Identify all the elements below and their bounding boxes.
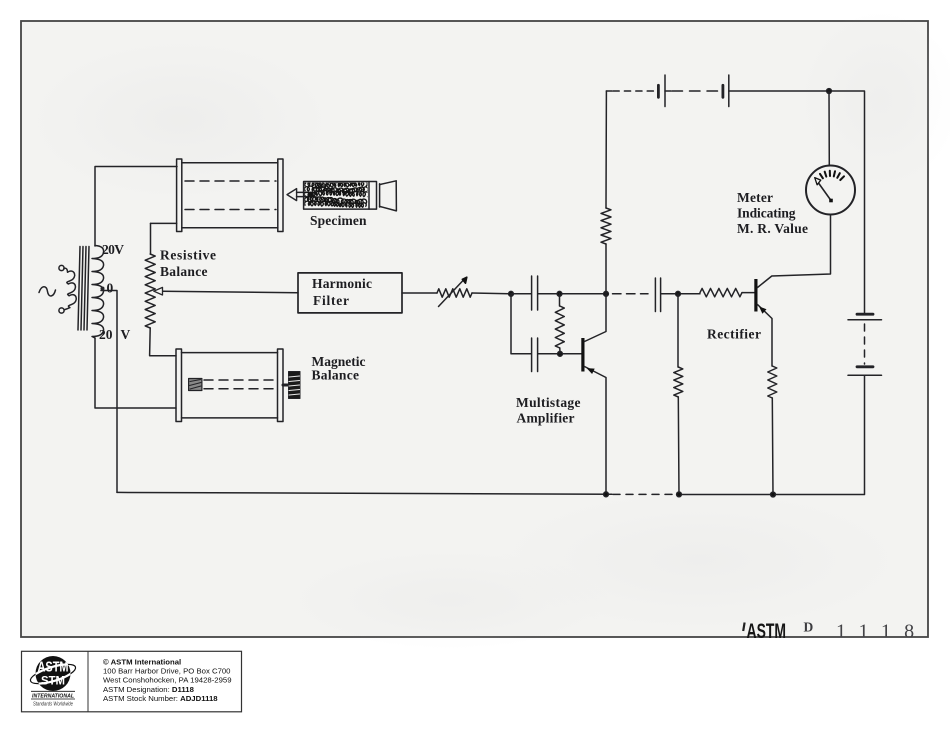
svg-text:Filter: Filter: [313, 293, 349, 308]
svg-text:D: D: [804, 620, 814, 635]
svg-text:Amplifier: Amplifier: [517, 411, 575, 426]
svg-text:© ASTM International: © ASTM International: [103, 657, 181, 666]
svg-text:Multistage: Multistage: [516, 395, 581, 410]
svg-text:Balance: Balance: [160, 264, 208, 279]
svg-text:100 Barr Harbor Drive, PO Box: 100 Barr Harbor Drive, PO Box C700: [103, 667, 231, 676]
svg-text:Resistive: Resistive: [160, 248, 216, 263]
svg-text:20: 20: [99, 327, 113, 342]
svg-text:M. R. Value: M. R. Value: [737, 221, 808, 236]
svg-text:Rectifier: Rectifier: [707, 326, 761, 341]
svg-text:Specimen: Specimen: [310, 213, 367, 228]
svg-text:Balance: Balance: [312, 368, 360, 383]
svg-text:Standards Worldwide: Standards Worldwide: [33, 702, 73, 708]
svg-text:ASTM: ASTM: [747, 620, 787, 643]
svg-text:INTERNATIONAL: INTERNATIONAL: [32, 693, 75, 699]
svg-text:1118: 1118: [836, 621, 927, 643]
svg-text:ASTM Stock Number: ADJD1118: ASTM Stock Number: ADJD1118: [103, 694, 218, 703]
svg-text:Meter: Meter: [737, 190, 773, 205]
svg-text:ASTM Designation: D1118: ASTM Designation: D1118: [103, 685, 195, 694]
svg-text:Harmonic: Harmonic: [312, 276, 372, 291]
svg-text:20V: 20V: [102, 242, 124, 257]
svg-text:0: 0: [107, 281, 114, 296]
svg-text:West Conshohocken, PA 19428-29: West Conshohocken, PA 19428-2959: [103, 676, 232, 685]
svg-text:V: V: [121, 327, 131, 342]
svg-text:Indicating: Indicating: [737, 206, 796, 221]
